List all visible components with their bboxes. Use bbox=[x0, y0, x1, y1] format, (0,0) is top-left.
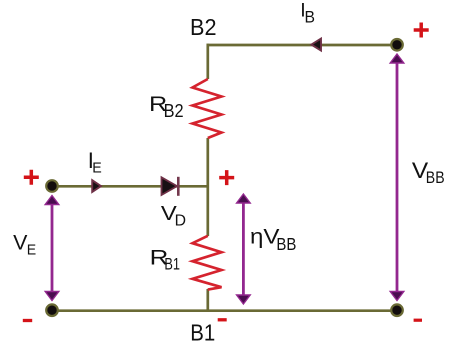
svg-text:B1: B1 bbox=[164, 256, 180, 274]
svg-text:B: B bbox=[305, 9, 316, 27]
svg-text:E: E bbox=[92, 159, 102, 176]
svg-text:V: V bbox=[13, 231, 27, 254]
svg-text:B1: B1 bbox=[190, 319, 215, 345]
svg-text:D: D bbox=[175, 212, 186, 229]
svg-text:BB: BB bbox=[426, 168, 445, 187]
svg-text:B2: B2 bbox=[164, 101, 184, 121]
svg-text:B2: B2 bbox=[190, 14, 217, 40]
svg-text:BB: BB bbox=[276, 234, 296, 254]
svg-text:E: E bbox=[27, 241, 36, 258]
